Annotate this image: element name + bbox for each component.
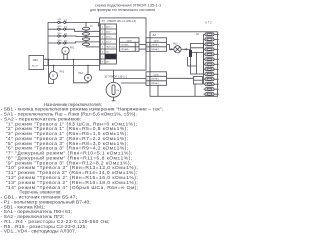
svg-text:ЦПИ: ЦПИ bbox=[127, 41, 132, 43]
svg-text:ПЦН (1-2): ПЦН (1-2) bbox=[106, 46, 116, 48]
svg-text:GB1: GB1 bbox=[33, 58, 39, 62]
svg-text:A: A bbox=[64, 49, 66, 53]
svg-text:ШС2+: ШС2+ bbox=[106, 36, 113, 38]
svg-text:ШС1+: ШС1+ bbox=[106, 26, 113, 28]
svg-text:РА1: РА1 bbox=[70, 47, 75, 50]
svg-text:Б5-47: Б5-47 bbox=[32, 65, 39, 67]
svg-text:А2: А2 bbox=[153, 33, 157, 37]
svg-text:- VD1...VD4 - светодиоды АЛ307: - VD1...VD4 - светодиоды АЛ307. bbox=[1, 229, 77, 235]
svg-text:СИГНАЛ−: СИГНАЛ− bbox=[151, 48, 160, 51]
svg-text:схема подключения УПКОП 135-1-: схема подключения УПКОП 135-1-1 bbox=[95, 2, 162, 7]
svg-text:HL1: HL1 bbox=[173, 42, 178, 46]
svg-text:ШС2−: ШС2− bbox=[106, 41, 113, 43]
svg-text:СИГНАЛ+: СИГНАЛ+ bbox=[151, 44, 161, 47]
svg-text:PV1: PV1 bbox=[60, 71, 65, 74]
svg-text:СИГНАЛ+: СИГНАЛ+ bbox=[151, 78, 161, 81]
svg-text:ШС1−: ШС1− bbox=[106, 31, 113, 33]
svg-text:ХТ2: ХТ2 bbox=[205, 20, 212, 24]
svg-text:СИГНАЛ−: СИГНАЛ− bbox=[120, 48, 129, 51]
svg-text:ЦПИ: ЦПИ bbox=[154, 75, 159, 77]
svg-text:+12В: +12В bbox=[106, 56, 112, 58]
svg-text:ЗУ УПКОП 135-1-1: ЗУ УПКОП 135-1-1 bbox=[105, 74, 128, 78]
svg-text:СИГНАЛ−: СИГНАЛ− bbox=[151, 82, 160, 85]
svg-text:Перечень элементов:: Перечень элементов: bbox=[20, 190, 62, 195]
svg-text:−: − bbox=[45, 66, 47, 70]
svg-text:УПКОП 135-1-1 (135-1-2): УПКОП 135-1-1 (135-1-2) bbox=[107, 20, 136, 23]
svg-text:СИГНАЛ+: СИГНАЛ+ bbox=[120, 44, 130, 47]
svg-text:ХТ: ХТ bbox=[102, 20, 106, 23]
svg-text:Назначение переключателей:: Назначение переключателей: bbox=[44, 102, 102, 107]
svg-text:Рщ: Рщ bbox=[116, 90, 119, 92]
svg-text:ЦПИ: ЦПИ bbox=[154, 41, 159, 43]
svg-text:РА2: РА2 bbox=[79, 72, 84, 75]
svg-text:для проверки его технического: для проверки его технического состояния bbox=[90, 8, 155, 12]
